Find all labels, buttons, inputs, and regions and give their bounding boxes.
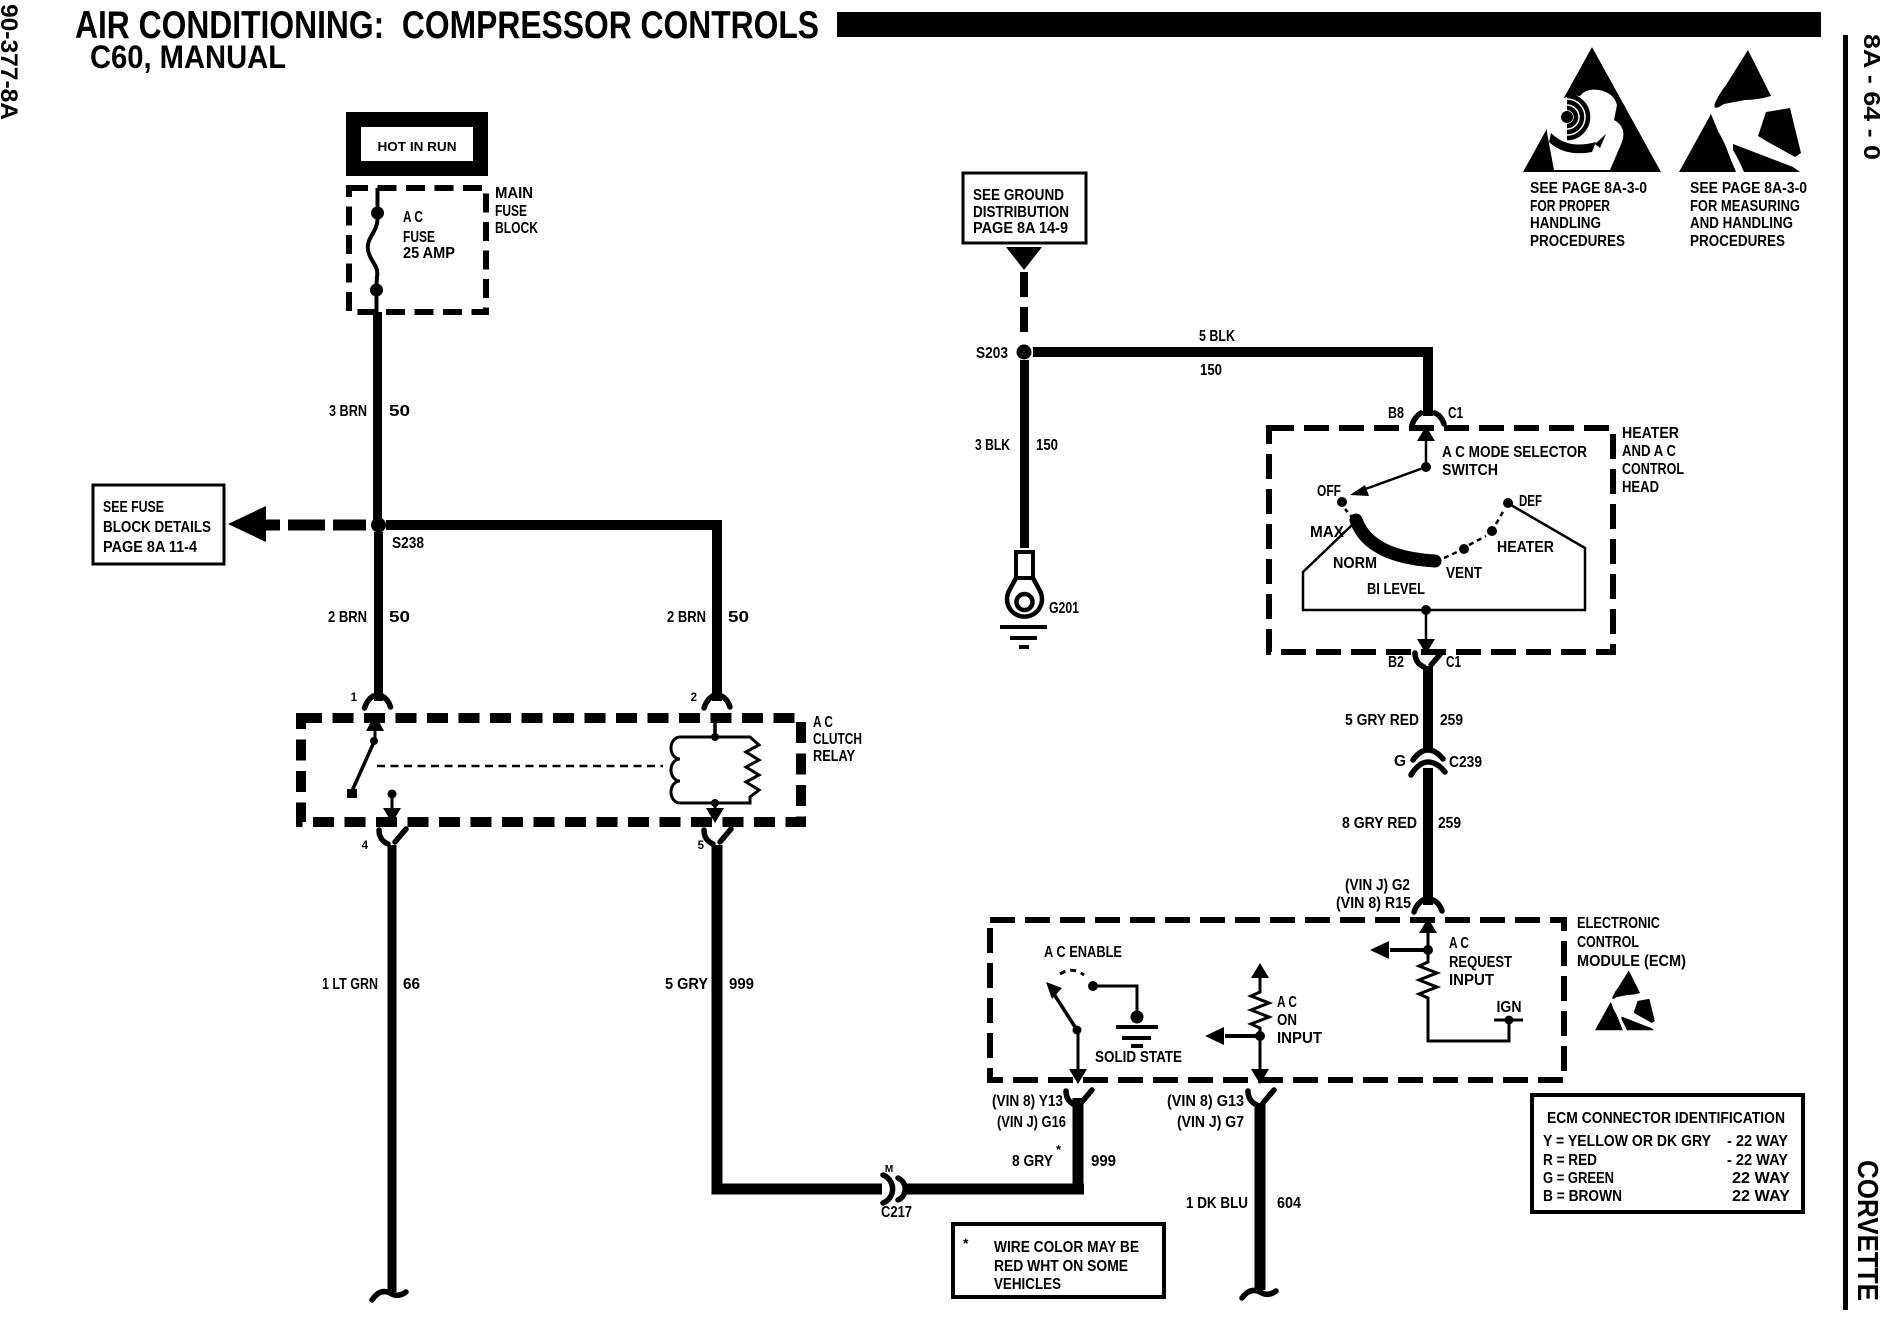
svg-text:150: 150 [1200,362,1222,379]
svg-text:S238: S238 [392,535,424,552]
svg-text:CLUTCH: CLUTCH [813,731,862,748]
svg-text:- 22 WAY: - 22 WAY [1727,1133,1789,1150]
svg-text:(VIN J) G16: (VIN J) G16 [997,1114,1066,1131]
svg-text:G201: G201 [1049,600,1079,617]
svg-text:50: 50 [389,403,410,420]
svg-text:C1: C1 [1448,405,1463,422]
svg-text:A C: A C [403,209,423,226]
svg-text:A C: A C [1277,994,1297,1011]
svg-text:2: 2 [691,692,697,704]
svg-text:22 WAY: 22 WAY [1732,1170,1791,1187]
svg-text:999: 999 [1091,1153,1116,1170]
svg-text:G = GREEN: G = GREEN [1543,1170,1614,1187]
svg-text:NORM: NORM [1333,555,1377,572]
svg-text:(VIN 8) Y13: (VIN 8) Y13 [992,1093,1063,1110]
svg-text:8 GRY RED: 8 GRY RED [1342,815,1417,832]
svg-text:SOLID STATE: SOLID STATE [1095,1049,1182,1066]
svg-text:A C: A C [813,714,833,731]
svg-text:C1: C1 [1446,654,1461,671]
svg-text:AND HANDLING: AND HANDLING [1690,215,1793,232]
svg-text:SEE PAGE 8A-3-0: SEE PAGE 8A-3-0 [1530,180,1647,197]
svg-text:IGN: IGN [1497,999,1522,1016]
svg-text:SWITCH: SWITCH [1442,462,1498,479]
svg-text:BLOCK DETAILS: BLOCK DETAILS [103,519,211,536]
svg-text:HEATER: HEATER [1622,425,1679,442]
svg-text:50: 50 [389,609,410,626]
svg-text:DEF: DEF [1519,493,1542,510]
svg-text:OFF: OFF [1317,483,1341,500]
svg-text:RELAY: RELAY [813,748,856,765]
svg-text:CORVETTE: CORVETTE [1851,1160,1880,1301]
svg-text:1 DK BLU: 1 DK BLU [1186,1195,1248,1212]
svg-text:CONTROL: CONTROL [1577,934,1639,951]
svg-text:(VIN J) G7: (VIN J) G7 [1177,1114,1244,1131]
svg-text:G: G [1394,753,1406,770]
svg-text:VEHICLES: VEHICLES [994,1276,1061,1293]
svg-text:5 GRY: 5 GRY [665,976,709,993]
svg-text:INPUT: INPUT [1449,972,1495,989]
svg-text:PAGE 8A 14-9: PAGE 8A 14-9 [973,220,1068,237]
svg-text:(VIN 8) R15: (VIN 8) R15 [1336,895,1411,912]
svg-text:PROCEDURES: PROCEDURES [1530,233,1625,250]
svg-text:3 BRN: 3 BRN [329,403,367,420]
svg-text:2 BRN: 2 BRN [667,609,706,626]
svg-text:A C ENABLE: A C ENABLE [1044,944,1122,961]
svg-text:MAIN: MAIN [495,185,533,202]
svg-text:C60, MANUAL: C60, MANUAL [90,39,286,75]
svg-text:5: 5 [698,840,705,852]
svg-text:CONTROL: CONTROL [1622,461,1684,478]
svg-text:25 AMP: 25 AMP [403,245,455,262]
svg-text:- 22 WAY: - 22 WAY [1727,1152,1789,1169]
svg-text:S203: S203 [976,345,1008,362]
svg-text:8 GRY: 8 GRY [1012,1153,1054,1170]
svg-text:SEE FUSE: SEE FUSE [103,499,164,516]
svg-text:*: * [963,1235,969,1251]
svg-text:REQUEST: REQUEST [1449,954,1512,971]
svg-text:50: 50 [728,609,749,626]
svg-text:66: 66 [403,976,420,993]
svg-text:604: 604 [1277,1195,1301,1212]
svg-text:FOR MEASURING: FOR MEASURING [1690,198,1800,215]
svg-text:R = RED: R = RED [1543,1152,1597,1169]
svg-text:PROCEDURES: PROCEDURES [1690,233,1785,250]
svg-text:WIRE COLOR MAY BE: WIRE COLOR MAY BE [994,1239,1139,1256]
svg-text:5 BLK: 5 BLK [1199,328,1236,345]
svg-text:BI LEVEL: BI LEVEL [1367,581,1425,598]
svg-text:HOT IN RUN: HOT IN RUN [378,139,457,154]
svg-text:FUSE: FUSE [403,229,435,246]
svg-text:BLOCK: BLOCK [495,220,539,237]
svg-text:999: 999 [729,976,754,993]
svg-text:AND A C: AND A C [1622,443,1676,460]
svg-text:Y = YELLOW OR DK GRY: Y = YELLOW OR DK GRY [1543,1133,1712,1150]
svg-text:1 LT GRN: 1 LT GRN [322,976,378,993]
svg-text:ON: ON [1277,1012,1297,1029]
svg-text:(VIN J) G2: (VIN J) G2 [1345,877,1410,894]
svg-text:MODULE (ECM): MODULE (ECM) [1577,953,1686,970]
svg-text:FOR PROPER: FOR PROPER [1530,198,1610,215]
svg-text:HEATER: HEATER [1497,539,1554,556]
svg-text:90-377-8A: 90-377-8A [0,4,22,120]
svg-text:HEAD: HEAD [1622,479,1659,496]
svg-text:VENT: VENT [1446,565,1482,582]
svg-text:22 WAY: 22 WAY [1732,1188,1791,1205]
svg-text:B2: B2 [1388,654,1404,671]
svg-text:RED WHT ON SOME: RED WHT ON SOME [994,1258,1128,1275]
svg-text:ELECTRONIC: ELECTRONIC [1577,915,1660,932]
svg-text:(VIN 8) G13: (VIN 8) G13 [1167,1093,1244,1110]
svg-text:8A - 64 - 0: 8A - 64 - 0 [1859,34,1880,160]
svg-text:ECM CONNECTOR IDENTIFICATION: ECM CONNECTOR IDENTIFICATION [1547,1110,1785,1127]
svg-text:HANDLING: HANDLING [1530,215,1601,232]
svg-text:SEE GROUND: SEE GROUND [973,187,1064,204]
svg-text:A C: A C [1449,935,1469,952]
svg-text:1: 1 [351,692,358,704]
svg-text:150: 150 [1036,437,1058,454]
svg-text:B = BROWN: B = BROWN [1543,1188,1622,1205]
svg-text:5 GRY RED: 5 GRY RED [1345,712,1419,729]
svg-text:INPUT: INPUT [1277,1030,1323,1047]
svg-text:259: 259 [1438,815,1461,832]
svg-text:2 BRN: 2 BRN [328,609,367,626]
svg-text:259: 259 [1440,712,1463,729]
svg-text:C239: C239 [1449,754,1482,771]
svg-text:FUSE: FUSE [495,203,527,220]
svg-text:A C MODE SELECTOR: A C MODE SELECTOR [1442,444,1587,461]
svg-text:DISTRIBUTION: DISTRIBUTION [973,204,1069,221]
svg-text:M: M [885,1164,893,1175]
svg-text:B8: B8 [1388,405,1404,422]
svg-text:PAGE 8A 11-4: PAGE 8A 11-4 [103,539,197,556]
svg-text:C217: C217 [881,1204,912,1221]
svg-text:SEE PAGE 8A-3-0: SEE PAGE 8A-3-0 [1690,180,1807,197]
svg-text:3 BLK: 3 BLK [975,437,1011,454]
svg-text:4: 4 [362,840,369,852]
